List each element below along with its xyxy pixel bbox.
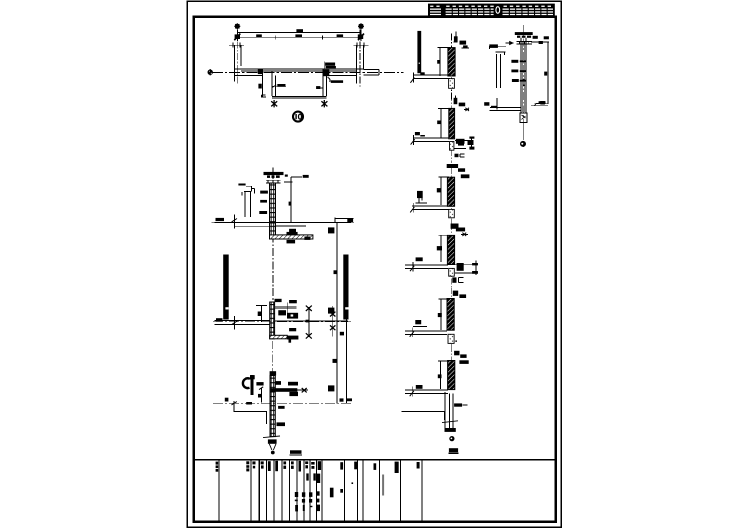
top cap black bbox=[447, 164, 458, 168]
right bracket piece bbox=[456, 139, 465, 144]
texts right bbox=[460, 41, 467, 45]
beam end X bbox=[297, 389, 308, 391]
mid row squares bbox=[295, 492, 298, 497]
pipe double lines bbox=[496, 54, 500, 88]
centerline above bbox=[271, 341, 273, 371]
right wall extension stub bbox=[363, 70, 378, 75]
left rebar labels bbox=[260, 191, 268, 194]
bracket text below bbox=[455, 154, 459, 158]
right wall centerline bbox=[359, 30, 361, 87]
hatched wall bbox=[449, 108, 455, 138]
vertical small text stacks bbox=[330, 488, 334, 498]
wall below slab bbox=[448, 334, 454, 343]
left text bbox=[416, 385, 423, 389]
junction corner blob bbox=[323, 70, 329, 77]
second right dim bbox=[332, 306, 334, 336]
left dim bbox=[438, 361, 449, 389]
title block column dividers bbox=[219, 461, 422, 521]
border frame outer bbox=[187, 1, 561, 527]
rung marks bbox=[511, 60, 526, 82]
black footing bbox=[268, 439, 277, 443]
detail number circle 10 bbox=[293, 112, 303, 122]
second row F F marks bbox=[306, 473, 308, 480]
column bar right bbox=[343, 255, 348, 320]
left dim bbox=[438, 235, 449, 262]
bottom left lines bbox=[484, 102, 489, 106]
cap base band bbox=[266, 180, 281, 183]
footing leg hatched bbox=[270, 335, 288, 339]
L profile below bbox=[234, 403, 267, 424]
wall below slab bbox=[449, 209, 455, 217]
upper beam right of wall bbox=[275, 307, 297, 309]
top row white dashes bbox=[430, 6, 551, 7]
texts near wall bbox=[278, 406, 285, 409]
right leader line bbox=[531, 41, 549, 43]
centerline bbox=[523, 25, 525, 147]
centerline bbox=[451, 346, 453, 360]
top cap bbox=[454, 351, 459, 356]
top tick blob bbox=[275, 299, 282, 302]
top cap bbox=[451, 224, 459, 229]
left wall centerline bbox=[237, 30, 239, 86]
tall detail T bbox=[484, 25, 549, 147]
wall below floor hatched bbox=[270, 223, 276, 237]
bottom row squares bbox=[295, 505, 298, 511]
table body black band bbox=[428, 4, 555, 17]
cut line bbox=[442, 421, 458, 423]
left parapet guard bbox=[242, 192, 251, 217]
footing black bits bbox=[289, 229, 296, 232]
bottom circle bbox=[520, 141, 526, 147]
slab double bbox=[405, 331, 447, 335]
grid bubble left bbox=[234, 23, 240, 29]
protrusion inner dimension bbox=[273, 85, 287, 87]
parapet cap top bars bbox=[264, 172, 284, 175]
wall centerline vertical bbox=[272, 168, 274, 302]
leader hook and label bbox=[328, 77, 330, 82]
centerline bbox=[451, 288, 453, 350]
left slab texts bbox=[415, 132, 420, 135]
hatched wall bbox=[447, 177, 454, 206]
beam black bar bbox=[271, 388, 298, 392]
solid black wall bar bbox=[417, 31, 421, 73]
slab end ticks bbox=[234, 316, 236, 330]
floor centerline bbox=[213, 402, 352, 404]
white row slots bbox=[430, 9, 553, 16]
lower beam bbox=[289, 328, 296, 331]
dim texts bbox=[256, 29, 343, 37]
centerline bbox=[451, 95, 453, 163]
hatched wall bbox=[270, 302, 275, 339]
detail 1 plan bbox=[208, 23, 404, 121]
slab left end ticks bbox=[233, 214, 235, 228]
detail 4 lower wall section bbox=[213, 341, 352, 455]
protrusion bottom double line bbox=[272, 96, 327, 98]
left dim bbox=[256, 305, 267, 321]
left dim bbox=[438, 47, 450, 76]
dimension extension verticals bbox=[237, 29, 361, 41]
floor slab left double bbox=[215, 321, 270, 325]
right L bracket bbox=[457, 263, 464, 271]
wall below slab bbox=[449, 79, 455, 89]
cut line bbox=[263, 436, 280, 438]
long dim line right x337 bbox=[336, 223, 338, 404]
hatched wall bbox=[447, 235, 454, 264]
hatched wall bbox=[448, 48, 455, 76]
right dim with X ticks bbox=[308, 307, 310, 337]
dimension line upper bbox=[237, 32, 361, 34]
below-grade dim and L bbox=[444, 392, 446, 430]
centerline bbox=[451, 34, 453, 101]
footing box bbox=[520, 113, 527, 123]
footing leg hatched bbox=[270, 235, 313, 239]
wall centerline horizontal with end circle bbox=[208, 70, 213, 75]
top cap bbox=[453, 291, 458, 296]
horizontal wall bottom face bbox=[235, 75, 357, 77]
left dim bbox=[438, 109, 449, 138]
cap base band bbox=[517, 41, 532, 44]
lower stem bbox=[523, 123, 525, 141]
centerline bbox=[451, 224, 453, 290]
small text inside protrusion bbox=[316, 86, 320, 89]
grid bubble right bbox=[358, 23, 364, 29]
floor slab bottom lines bbox=[235, 225, 307, 227]
left dim bbox=[438, 299, 449, 330]
protrusion left dimension bbox=[261, 69, 266, 98]
right wall plan bbox=[356, 45, 363, 83]
wall break marks right bbox=[353, 43, 368, 48]
slab double bbox=[405, 265, 448, 268]
hatched wall bbox=[447, 299, 454, 331]
slab double bbox=[412, 206, 449, 209]
floor centerline dashes bbox=[212, 222, 355, 224]
junction flag labels bbox=[323, 62, 325, 69]
small I dimension bbox=[471, 137, 473, 150]
slab right single bbox=[275, 320, 348, 322]
label text bbox=[256, 382, 263, 385]
title block text marks bbox=[216, 461, 420, 512]
title block bottom bbox=[194, 460, 556, 521]
dim end ticks bbox=[234, 34, 364, 41]
column bar left bbox=[223, 255, 229, 320]
texts right bbox=[459, 103, 466, 107]
detail 3 floor junction bbox=[213, 299, 352, 343]
scale label bbox=[449, 448, 458, 452]
scale label under detail bbox=[290, 450, 302, 454]
left arrow bbox=[506, 42, 514, 44]
left flag glyph bbox=[417, 191, 423, 198]
bracket text below bbox=[452, 277, 456, 282]
hatched wall bbox=[448, 361, 455, 390]
top cap bbox=[454, 36, 458, 42]
detail 2 wall section bbox=[212, 168, 355, 404]
dash row bbox=[295, 500, 298, 502]
slab double bbox=[405, 390, 448, 394]
left wall plan bbox=[235, 45, 241, 81]
zero glyph cell bbox=[496, 7, 500, 14]
step leader to text bbox=[284, 177, 302, 182]
long dim line right x347.5 bbox=[346, 306, 348, 403]
left top text bbox=[489, 44, 498, 48]
wall below slab bbox=[450, 142, 454, 151]
horizontal wall top face double line bbox=[235, 68, 364, 70]
left dim bbox=[438, 177, 449, 205]
border frame inner bbox=[194, 17, 556, 522]
small dim mark left of protrusion bottom bbox=[262, 95, 266, 98]
centerline horizontal bbox=[213, 321, 352, 323]
centerline bbox=[451, 168, 453, 229]
wall below slab bbox=[449, 268, 455, 276]
wall break marks left bbox=[229, 43, 244, 48]
slab right end hook bbox=[335, 218, 354, 223]
left text bbox=[416, 257, 423, 261]
right bracket mid bbox=[531, 105, 548, 107]
left bracket lines bbox=[490, 46, 507, 49]
left text bbox=[415, 320, 421, 324]
black footing bbox=[445, 428, 456, 432]
revision table top right bbox=[428, 4, 555, 17]
wall top cap bbox=[271, 369, 273, 371]
right dim bbox=[547, 43, 549, 105]
floor slab left top bbox=[215, 222, 351, 224]
column dividers over slots bbox=[452, 8, 548, 16]
dim intermediate ticks bbox=[275, 35, 322, 39]
dimension line lower bbox=[237, 36, 361, 38]
right dimension line bbox=[285, 182, 293, 223]
title block top rule bbox=[194, 459, 556, 461]
hatched wall bbox=[270, 376, 275, 437]
slab right stub bbox=[455, 139, 474, 141]
rebar hook symbol bbox=[243, 378, 250, 388]
floor slab double bbox=[413, 75, 450, 79]
right column details R1-R6 bbox=[410, 31, 469, 101]
top cap bbox=[454, 98, 458, 104]
slab double bbox=[413, 138, 449, 142]
small dim bbox=[261, 388, 263, 403]
protrusion width ticks bbox=[271, 100, 327, 107]
hatched wall bbox=[270, 183, 276, 237]
main wall ladder bbox=[521, 38, 526, 113]
slab left end ticks bbox=[412, 72, 414, 82]
protrusion walls bbox=[272, 72, 276, 97]
cap bars bbox=[515, 32, 533, 35]
wall below continues bbox=[450, 394, 453, 429]
